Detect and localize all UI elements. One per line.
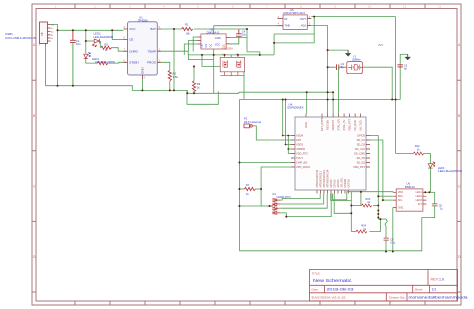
svg-text:EXT_RSTB: EXT_RSTB <box>320 117 324 131</box>
svg-text:REV:: REV: <box>431 278 439 282</box>
svg-text:VCC: VCC <box>129 27 136 31</box>
connector USB1 <box>40 22 51 45</box>
svg-text:GPIO2: GPIO2 <box>333 179 337 187</box>
svg-text:R7: R7 <box>246 183 250 187</box>
dual mosfet U2 FS8205A <box>220 55 244 76</box>
frame zone letters <box>33 5 461 259</box>
svg-text:MTDI/GPIO12: MTDI/GPIO12 <box>319 171 323 188</box>
wires top pin risers <box>333 67 339 113</box>
svg-text:TAB: TAB <box>285 24 290 28</box>
wire vertical from BAT line down <box>173 29 175 90</box>
resistor R23 <box>351 205 361 207</box>
svg-text:U0TXD: U0TXD <box>347 179 351 188</box>
svg-text:2018-08-03: 2018-08-03 <box>327 288 354 292</box>
IC U1 TP4056 <box>124 15 162 79</box>
wire mid rails <box>187 26 274 105</box>
svg-text:New Schematic: New Schematic <box>313 278 352 283</box>
resistor R24 <box>351 231 356 233</box>
svg-text:GND: GND <box>215 36 221 40</box>
svg-text:BAT: BAT <box>150 27 156 31</box>
svg-text:VCC: VCC <box>215 42 221 46</box>
svg-text:10: 10 <box>368 5 372 9</box>
svg-text:VDDPD: VDDPD <box>296 147 305 151</box>
svg-text:U0RXD: U0RXD <box>343 179 347 188</box>
svg-text:SD_D2: SD_D2 <box>357 160 366 164</box>
svg-text:SD_CLK: SD_CLK <box>355 147 365 151</box>
svg-text:PROG: PROG <box>147 61 157 65</box>
wire OUT 3V3 <box>311 16 395 18</box>
wire VDDPD VDD_RTC riser <box>288 136 291 154</box>
svg-text:XPD_DCDC: XPD_DCDC <box>296 165 310 169</box>
svg-text:VDD3: VDD3 <box>296 142 303 146</box>
wire ADJ gnd branch <box>328 49 349 51</box>
label U2 FS8205A <box>222 43 233 50</box>
ground <box>345 50 351 56</box>
svg-text:TOUT: TOUT <box>296 156 303 160</box>
resistor R22 <box>396 153 414 155</box>
svg-text:1.5k: 1.5k <box>173 75 179 79</box>
svg-text:VDD_PST: VDD_PST <box>353 165 365 169</box>
svg-text:CHRG: CHRG <box>129 49 138 53</box>
svg-text:OUT: OUT <box>300 17 306 21</box>
svg-text:R2: R2 <box>105 43 109 47</box>
svg-text:D-: D- <box>51 28 54 30</box>
svg-text:R22: R22 <box>415 144 420 148</box>
svg-text:GND: GND <box>304 122 308 128</box>
crystal Y1 <box>347 54 363 73</box>
wire TP4056 GND down <box>141 79 143 90</box>
svg-text:FS8205A: FS8205A <box>222 46 233 50</box>
wire CHIP_EN left <box>239 162 291 164</box>
svg-text:GPIO5: GPIO5 <box>357 133 365 137</box>
IC U5 LM1117 <box>278 8 312 29</box>
right pin stubs <box>366 136 370 168</box>
svg-text:TEMP: TEMP <box>148 49 156 53</box>
gnd ring <box>239 100 421 251</box>
svg-text:STDBY: STDBY <box>129 61 139 65</box>
svg-text:3V3: 3V3 <box>378 43 383 47</box>
resistor R6 <box>192 81 195 92</box>
capacitor C8 <box>432 192 438 206</box>
wire VBUS to VCC rail <box>46 25 334 114</box>
svg-text:VDD: VDD <box>398 191 403 194</box>
svg-text:EASYEDA V5.6.15: EASYEDA V5.6.15 <box>312 295 346 299</box>
svg-text:U0_TXD: U0_TXD <box>358 120 362 130</box>
wire TAB line <box>214 25 283 27</box>
resistor R3 <box>97 61 108 64</box>
wire U6 gnd down to ring <box>392 208 394 252</box>
wire XPD to R7 node <box>261 167 291 206</box>
resistor R1 <box>182 27 193 30</box>
svg-text:TITLE:: TITLE: <box>312 272 321 276</box>
wire VDDA riser <box>283 100 291 136</box>
svg-text:BS814A: BS814A <box>405 185 415 189</box>
svg-text:XTAL_IN: XTAL_IN <box>342 120 346 130</box>
IC U6 touch BS814A <box>393 182 427 212</box>
svg-text:GND: GND <box>141 67 145 75</box>
svg-text:DW01A-G: DW01A-G <box>207 30 220 34</box>
svg-text:RES12K: RES12K <box>325 120 329 130</box>
label USB1 <box>5 32 36 40</box>
capacitor C3 <box>397 65 403 67</box>
svg-text:R1: R1 <box>185 23 189 27</box>
wire C3 branch <box>399 54 401 99</box>
capacitor C2 <box>328 64 347 70</box>
svg-text:IN: IN <box>285 17 288 21</box>
wire BAT+ node down <box>246 29 248 52</box>
wire DW01 GND right <box>230 37 248 39</box>
svg-text:CHIP_EN: CHIP_EN <box>296 160 307 164</box>
resistor R7 <box>239 188 244 190</box>
antenna P1 <box>244 117 262 128</box>
svg-text:ADJ: ADJ <box>301 24 307 28</box>
svg-text:LED1: LED1 <box>416 191 423 194</box>
svg-text:SD_D0: SD_D0 <box>357 156 366 160</box>
svg-text:mohamedalibenhammouda: mohamedalibenhammouda <box>409 295 468 299</box>
svg-text:SD_D3: SD_D3 <box>357 142 366 146</box>
wire TEMP right <box>161 50 188 52</box>
wires right pins to touch IC <box>370 136 393 220</box>
svg-text:LED-Red(0603): LED-Red(0603) <box>438 170 462 173</box>
svg-text:MTDO/GPIO15: MTDO/GPIO15 <box>315 169 319 187</box>
svg-text:Date:: Date: <box>312 288 319 292</box>
svg-text:10u: 10u <box>76 42 81 46</box>
wire VDD net to U6 <box>331 192 393 232</box>
svg-text:INT: INT <box>418 203 423 206</box>
svg-text:GPIO0: GPIO0 <box>329 179 333 187</box>
svg-text:WI-FI antenna: WI-FI antenna <box>244 120 262 124</box>
svg-text:G: G <box>51 38 53 40</box>
svg-text:10k: 10k <box>186 31 191 35</box>
svg-text:LM1117MPX-ADJ: LM1117MPX-ADJ <box>283 11 306 15</box>
resistor R5 <box>168 70 171 81</box>
svg-text:XTAL_EN: XTAL_EN <box>336 119 340 130</box>
LED LED2 <box>93 39 100 47</box>
svg-text:GND: GND <box>398 207 404 210</box>
svg-text:1.0: 1.0 <box>439 278 444 282</box>
resistor R2 <box>101 46 112 49</box>
wire Y1 right <box>362 67 392 99</box>
svg-text:VDD_RTC: VDD_RTC <box>296 151 308 155</box>
svg-text:SDA: SDA <box>398 195 403 198</box>
bottom pin stubs <box>317 190 349 194</box>
wire antenna to ANT <box>252 126 291 140</box>
svg-text:OC: OC <box>209 43 213 47</box>
svg-text:SD_CMD: SD_CMD <box>354 151 365 155</box>
wires D1 right stubs <box>280 193 331 216</box>
LED LED3 <box>428 162 435 169</box>
svg-text:1/1: 1/1 <box>432 288 437 292</box>
svg-text:VB: VB <box>40 32 44 36</box>
svg-text:Sheet:: Sheet: <box>415 288 424 292</box>
svg-text:LED2: LED2 <box>416 195 423 198</box>
wire R1 to BAT+ node <box>194 28 247 30</box>
IC U4 ESP8266EX <box>288 102 371 193</box>
wire U6 led row to C8 <box>426 191 434 193</box>
wire PROG to R5 <box>161 62 170 70</box>
svg-text:P1: P1 <box>244 117 248 121</box>
svg-text:TP4056: TP4056 <box>138 18 149 22</box>
svg-text:0.1u: 0.1u <box>390 242 395 245</box>
svg-text:SD_D1: SD_D1 <box>357 138 366 142</box>
svg-text:12: 12 <box>438 5 442 9</box>
wire IN net corner <box>274 17 314 55</box>
capacitor C4 <box>230 30 242 44</box>
left pin stubs <box>291 136 295 168</box>
svg-text:LED-Red(0603): LED-Red(0603) <box>94 35 114 39</box>
wire under mosfets <box>221 75 245 77</box>
svg-text:VDDA: VDDA <box>296 133 303 137</box>
wires DW01 left pins <box>184 37 197 55</box>
wire squiggle to C9 <box>385 219 387 238</box>
svg-text:CS: CS <box>204 44 208 48</box>
svg-text:SCL: SCL <box>398 199 403 202</box>
svg-text:ANT: ANT <box>296 138 302 142</box>
svg-text:CE: CE <box>129 38 133 42</box>
svg-text:VDD_PST: VDD_PST <box>347 119 351 131</box>
svg-text:ESP8266EX: ESP8266EX <box>288 106 304 110</box>
svg-text:11: 11 <box>403 5 406 9</box>
svg-text:Drawn By:: Drawn By: <box>389 295 406 299</box>
capacitor C1 <box>70 30 76 85</box>
LED LED1 <box>84 52 91 59</box>
svg-text:CON-USB-F-MICRO-B: CON-USB-F-MICRO-B <box>5 36 36 40</box>
wire VDD3 riser <box>286 100 292 145</box>
svg-text:VDDPST: VDDPST <box>331 120 335 131</box>
ground <box>405 54 411 60</box>
svg-text:SD_SEL: SD_SEL <box>340 177 344 188</box>
IC U3 DW01A-G <box>198 28 230 49</box>
svg-text:LED3: LED3 <box>416 199 423 202</box>
top pin stubs <box>306 114 361 118</box>
wire R7 to D1 <box>261 205 273 207</box>
wire ADJ down <box>311 25 327 27</box>
svg-text:26MHz: 26MHz <box>352 58 361 62</box>
title block <box>310 270 458 302</box>
capacitor C9 <box>384 238 389 240</box>
svg-text:10u: 10u <box>242 33 247 37</box>
svg-text:MTCK/GPIO13: MTCK/GPIO13 <box>322 170 326 188</box>
svg-text:GPIO4: GPIO4 <box>336 179 340 187</box>
wire BAT to R1 <box>161 28 181 30</box>
svg-text:MTMS/GPIO14: MTMS/GPIO14 <box>326 169 330 187</box>
diode array D1 <box>269 198 281 215</box>
wire LED branch vertical <box>86 30 124 63</box>
svg-text:U0_RXD: U0_RXD <box>353 120 357 130</box>
